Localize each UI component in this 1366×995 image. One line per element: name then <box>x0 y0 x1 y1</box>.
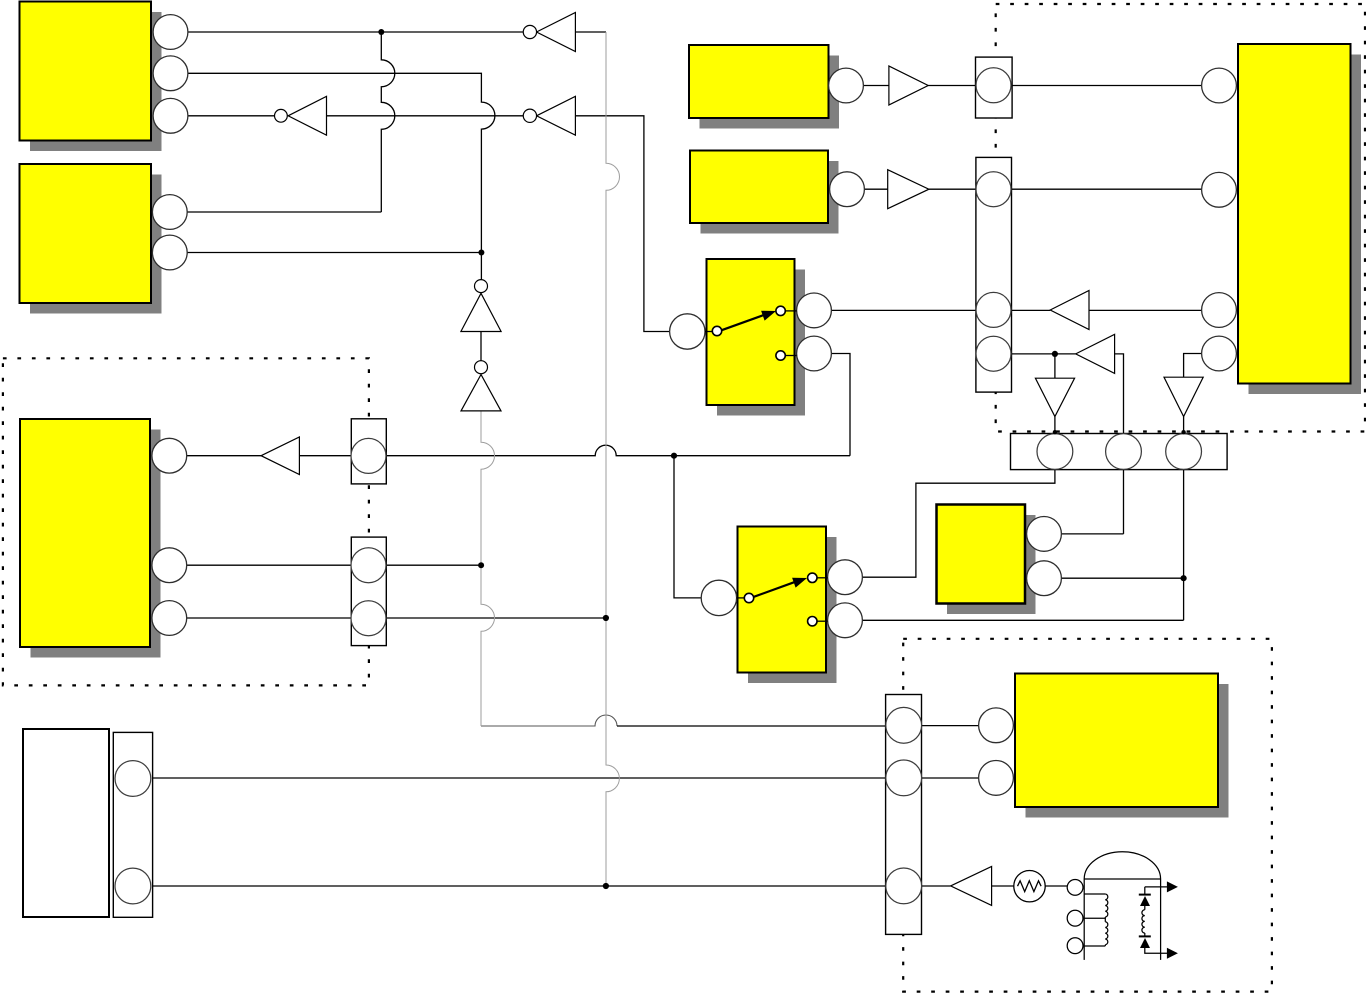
shadows of yellow blocks <box>30 12 1361 818</box>
wire switch S1 pin1 to inverter U7 to E <box>831 309 1201 311</box>
left rail <box>1083 879 1085 960</box>
wire gray horizontal continuation (black part) <box>481 715 617 726</box>
wire node up to switch S1 pin2 <box>831 354 850 456</box>
inverter U1 <box>275 96 327 135</box>
pin B2 <box>152 235 187 270</box>
pin B1 <box>152 195 187 230</box>
motor terminal circles <box>1067 880 1083 954</box>
node dot U8 net <box>1052 351 1058 357</box>
wire H2 long line <box>153 885 886 887</box>
wire B1 up to node A1 <box>187 32 395 212</box>
wire U11 to resistor <box>992 885 1014 887</box>
wire J pin2 <box>922 777 979 779</box>
connector P6 circle c <box>886 868 922 904</box>
wire E pin4 to down-buffer U10 then strip and switch S2 pin2 <box>863 354 1202 621</box>
node dot I pin2 net <box>1181 575 1187 581</box>
switch S1 common pin <box>670 314 705 349</box>
pin C3 <box>152 601 187 636</box>
diode D1 <box>1140 896 1150 906</box>
coil L1 <box>1105 894 1108 917</box>
gray net from buffer U12 down and right <box>481 411 495 726</box>
white block H <box>23 729 109 917</box>
yellow switch block S2 <box>738 527 827 673</box>
connector P1 circle <box>351 438 386 473</box>
node dot B2 <box>478 250 484 256</box>
switch S1 contacts and arrow <box>705 306 797 360</box>
connector P2 circle b <box>351 601 386 636</box>
connector P4 circle b <box>976 292 1011 327</box>
switch S2 pin NO <box>828 560 863 595</box>
wire A2 down column with hops <box>188 73 495 280</box>
pin I1 <box>1027 517 1062 552</box>
node dot main <box>671 453 677 459</box>
WIRES black <box>153 32 1202 886</box>
yellow block B <box>20 164 152 303</box>
wire U1 to U3 <box>327 115 524 117</box>
inverter U7 <box>1050 291 1089 330</box>
node dot C2 <box>478 562 484 568</box>
shadow of block F <box>701 161 839 234</box>
pin F1 <box>830 172 865 207</box>
pin A3 <box>153 98 188 133</box>
dashed boundary box top-right <box>996 4 1365 432</box>
connector P4 circle a <box>976 172 1011 207</box>
yellow block E <box>1238 44 1351 384</box>
diode D1 bar <box>1139 894 1151 896</box>
connector P2 circle a <box>351 548 386 583</box>
wire U3 output down to switch S1 common <box>575 116 670 332</box>
arrow terminal bottom <box>1167 948 1178 959</box>
coil L2 <box>1105 922 1108 945</box>
yellow block I <box>937 505 1026 604</box>
shadow of block D <box>700 56 840 129</box>
wire connector to node with hop over center column <box>386 445 850 456</box>
connector circles <box>115 68 1202 904</box>
down buffer U9 <box>1035 378 1074 416</box>
connector P5 circle a <box>1037 434 1073 470</box>
connector P7 circle a <box>115 761 151 797</box>
pin circles <box>152 15 1237 796</box>
shadow of switch S2 <box>748 537 837 683</box>
pin I2 <box>1027 561 1062 596</box>
node dot H2 line <box>603 883 609 889</box>
inverter U4 <box>261 437 299 475</box>
diode branch top <box>1145 887 1167 895</box>
wire node down to switch S2 common <box>674 456 702 598</box>
wire J pin1 <box>922 725 979 727</box>
coil tap top <box>1084 893 1105 895</box>
connector tall rect right <box>976 157 1012 392</box>
diode D2 bar <box>1139 935 1151 937</box>
switch S1 pin NO <box>797 293 832 328</box>
connector P5 circle b <box>1106 434 1142 470</box>
yellow block F <box>690 151 828 224</box>
shadow of block A <box>30 12 162 151</box>
pin E1 <box>1202 68 1237 103</box>
shadow of block J <box>1026 684 1229 818</box>
yellow switch block S1 <box>707 259 795 405</box>
down buffer U10 <box>1164 377 1203 416</box>
connector P7 circle b <box>115 868 151 904</box>
buffer U5 <box>889 66 928 105</box>
inverter bubbles on gray column already above; junction dots <box>378 29 1186 889</box>
inverter U8 <box>1076 334 1115 373</box>
up buffer U12a <box>461 280 501 332</box>
shadow of block B <box>30 175 162 314</box>
connector P5 circle c <box>1166 434 1202 470</box>
motor drive subcircuit <box>1083 852 1167 960</box>
yellow block C <box>20 419 150 647</box>
connector rect C1 <box>113 57 1227 934</box>
wire A3 to inverter U1 <box>188 115 275 117</box>
pin D1 <box>829 68 864 103</box>
wire A1 out <box>188 31 523 33</box>
pin C2 <box>152 548 187 583</box>
pin E4 <box>1202 336 1237 371</box>
right rail <box>1160 879 1162 960</box>
coil mid tap <box>1083 917 1105 922</box>
node dot C3 end <box>603 615 609 621</box>
inverter U2 <box>523 13 575 52</box>
wire net to connector P6 top <box>617 725 886 727</box>
connector rect H <box>113 732 152 917</box>
switch S1 pin NC <box>797 336 832 371</box>
switch S2 contacts and arrow <box>737 573 828 626</box>
wire I pin2 to node <box>1061 577 1183 579</box>
node dot strip top <box>1053 430 1057 434</box>
connector P6 circle b <box>886 760 922 796</box>
wire C3 <box>187 617 606 619</box>
wire inverter U2 output to center column <box>575 31 606 33</box>
connector rect bottom <box>886 695 922 935</box>
shadow of block C <box>31 430 161 658</box>
node dot strip top right <box>1181 430 1185 434</box>
pin J2 <box>979 761 1014 796</box>
shadow of switch S1 <box>717 270 805 416</box>
wire between up-buffers <box>480 332 482 361</box>
inverter U11 <box>951 866 992 905</box>
wire resistor to terminal <box>1045 885 1067 887</box>
resistor in circle <box>1014 871 1045 902</box>
coil L3 <box>1142 906 1145 933</box>
connector strip horizontal <box>1011 434 1228 470</box>
diode D2 <box>1140 938 1150 948</box>
buffer U6 <box>888 170 929 209</box>
dashed boundary box bottom-right <box>903 639 1272 992</box>
wire F to buffer U6 <box>864 188 1201 190</box>
wire node to down-buffer U9 then to strip and switch S2 pin1 <box>862 354 1055 577</box>
pin J1 <box>979 708 1014 743</box>
connector rect D <box>976 57 1013 118</box>
shadow of block I <box>947 515 1036 614</box>
yellow block A <box>20 2 152 141</box>
connector P3 circle <box>976 68 1011 103</box>
wire C1 to inverter U4 <box>187 455 261 457</box>
connector P4 circle c <box>976 336 1011 371</box>
dashed boundary box left <box>3 358 369 685</box>
pin C1 <box>152 438 187 473</box>
switch S2 common pin <box>701 580 736 615</box>
wire H1 long line with hop <box>153 777 886 779</box>
long gray net vertical center column <box>481 32 620 886</box>
connector rect C2/C3 <box>351 537 386 646</box>
dome arc <box>1084 852 1160 879</box>
wire net of inverter U8 <box>1012 354 1124 534</box>
top link <box>1084 878 1160 880</box>
wire conn3 to inverter U11 <box>922 885 951 887</box>
node dot A1/B1 <box>378 29 384 35</box>
yellow block D <box>689 45 829 118</box>
wire D to buffer U5 <box>863 85 1201 87</box>
pin E3 <box>1202 293 1237 328</box>
inverter U3 <box>523 96 575 135</box>
pin A1 <box>153 15 188 50</box>
up buffer U12b <box>461 361 501 411</box>
wire B2 to node <box>187 252 481 254</box>
wire U4 to connector <box>299 455 351 457</box>
connector P6 circle a <box>886 707 922 743</box>
yellow block J <box>1015 674 1218 808</box>
pin A2 <box>153 56 188 91</box>
shadow of block E <box>1249 55 1362 395</box>
wire C2 <box>187 564 481 566</box>
switch S2 pin NC <box>828 603 863 638</box>
pin E2 <box>1202 172 1237 207</box>
arrow terminal top <box>1167 881 1178 892</box>
coil bottom tap <box>1083 945 1105 946</box>
